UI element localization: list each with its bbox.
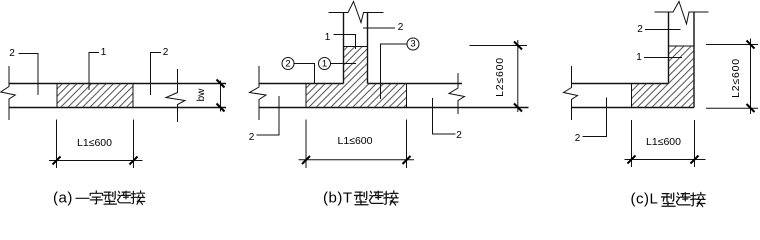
band hatch left boundary (c)	[631, 84, 633, 108]
leader line circled 1 (b)	[331, 63, 357, 65]
L1 tick left (a)	[53, 157, 61, 165]
L1 extension line left (c)	[631, 120, 633, 167]
bw tick bottom (a)	[217, 104, 225, 112]
leader label 2 top (b)	[398, 23, 404, 33]
L1 tick right (b)	[403, 156, 411, 164]
leader line 2 left (a)	[19, 54, 39, 96]
leader label 2 left (a)	[9, 49, 15, 59]
L2 tick top (b)	[514, 42, 522, 50]
circled label 2 (b)	[282, 58, 294, 70]
L2 dimension text (c)	[730, 58, 741, 98]
wall bottom line (a)	[9, 107, 226, 109]
leader line 2 top (c)	[645, 29, 681, 31]
leader label 2 bottom-right (b)	[456, 131, 462, 141]
caption (b) glyph lian	[369, 191, 383, 203]
wall top line right of stem (b)	[368, 83, 463, 85]
stem top break (c)	[655, 2, 709, 25]
caption (a) glyph lian	[118, 191, 131, 203]
caption (b) glyph xing	[354, 191, 368, 204]
stem hatch top boundary (b)	[344, 46, 368, 48]
L2 top extension line (c)	[706, 44, 758, 46]
wall top line (c)	[572, 83, 669, 85]
corner hatch L-shape (c)	[632, 46, 695, 108]
leader label 2 right (a)	[163, 48, 169, 58]
leader label 1 (c)	[636, 53, 642, 63]
L1 extension line right (c)	[694, 120, 696, 167]
circled digit 3 (b)	[410, 40, 415, 50]
circled label 1 (b)	[319, 58, 331, 70]
L1 dimension line (b)	[299, 159, 415, 161]
bw tick top (a)	[217, 80, 225, 88]
wall bottom line (c)	[572, 107, 695, 109]
L2 tick bottom (b)	[514, 104, 522, 112]
stem left line (b)	[343, 13, 345, 84]
band hatch (b)	[306, 84, 407, 108]
leader line 1 (b)	[334, 35, 356, 50]
stem hatch (b)	[344, 47, 368, 84]
stem left line (c)	[668, 12, 670, 84]
band hatch right boundary (b)	[406, 84, 408, 108]
L1 dimension line (a)	[49, 160, 143, 162]
right break symbol (a)	[166, 69, 185, 122]
caption (b) latin part	[323, 190, 353, 205]
circled digit 1 (b)	[322, 59, 327, 69]
L2 bottom extension line (c)	[706, 107, 758, 109]
L1 extension line right (b)	[406, 120, 408, 169]
L1 tick right (a)	[130, 157, 138, 165]
caption (c) glyph lian	[676, 193, 690, 205]
right break symbol (b)	[449, 73, 465, 114]
L2 top extension line (b)	[470, 45, 528, 47]
leader line 2 bottom-right (b)	[433, 98, 456, 134]
L2 dimension line (b)	[517, 40, 519, 112]
leader line 1 (c)	[644, 57, 682, 59]
caption (c) glyph xing	[661, 193, 675, 206]
hatch right boundary (a)	[132, 84, 134, 108]
hatch left boundary (a)	[56, 84, 58, 108]
caption (a) glyph jie	[131, 191, 145, 205]
stem right line (b)	[367, 13, 369, 84]
L2 dimension text (b)	[495, 57, 506, 97]
caption (a) glyph xing	[104, 191, 117, 204]
leader label 2 bottom-left (b)	[249, 133, 255, 143]
leader line 2 top (b)	[363, 27, 395, 29]
stem hatch top boundary (c)	[669, 45, 695, 47]
stem right line (c)	[693, 12, 695, 108]
wall bottom line (b)	[259, 107, 529, 109]
wall top line (a)	[9, 83, 226, 85]
leader line circled 3 (b)	[381, 44, 408, 99]
leader label 1 (b)	[325, 33, 331, 43]
L2 tick top (c)	[747, 41, 755, 49]
bw dimension text (a)	[197, 88, 207, 101]
caption (a) latin part	[53, 190, 73, 205]
leader label 2 top (c)	[637, 25, 643, 35]
L1 dimension line (c)	[625, 159, 706, 161]
L1 extension line right (a)	[133, 120, 135, 169]
stem top break (b)	[329, 2, 384, 23]
caption (c) glyph jie	[691, 192, 705, 206]
L1 tick right (c)	[691, 156, 699, 164]
L1 extension line left (b)	[305, 120, 307, 169]
leader line circled 2 (b)	[294, 64, 315, 84]
bw dimension line (a)	[220, 81, 222, 112]
circled label 3 (b)	[407, 38, 419, 50]
caption (a) glyph yi	[76, 197, 89, 199]
left break symbol (c)	[564, 66, 578, 120]
caption (b) glyph jie	[384, 191, 398, 205]
L2 tick bottom (c)	[747, 104, 755, 112]
hatched wall core (a)	[57, 84, 133, 108]
caption (c) latin part	[631, 192, 659, 207]
leader line 2 right (a)	[151, 53, 162, 96]
leader line 1 (a)	[89, 53, 99, 91]
L1 extension line left (a)	[56, 120, 58, 169]
leader label 1 (a)	[101, 48, 107, 58]
left break symbol (a)	[1, 66, 16, 120]
L1 tick left (c)	[628, 156, 636, 164]
L1 dimension text (a)	[77, 137, 112, 148]
circled digit 2 (b)	[285, 59, 290, 69]
L1 dimension text (b)	[338, 136, 373, 147]
leader line 2 bottom-left (b)	[257, 96, 280, 135]
caption (a) glyph yu	[90, 191, 102, 204]
wall top line left of stem (b)	[259, 83, 344, 85]
L2 dimension line (c)	[750, 39, 752, 115]
leader line 2 bottom (c)	[583, 98, 607, 137]
leader label 2 bottom (c)	[575, 134, 581, 144]
L1 dimension text (c)	[646, 136, 681, 147]
left break symbol (b)	[250, 66, 267, 120]
L1 tick left (b)	[302, 156, 310, 164]
band hatch left boundary (b)	[305, 84, 307, 108]
